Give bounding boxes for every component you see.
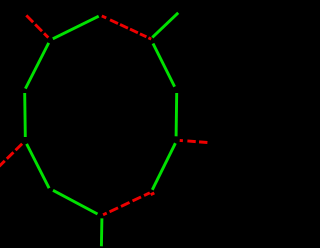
bond C2-C3 (green) <box>153 44 175 87</box>
node C5 (red dash end dot) <box>151 193 155 195</box>
dashed bond C6-C5 (red, bottom) <box>103 192 152 215</box>
bond C7-C6 (green, bottom) <box>53 190 98 214</box>
dashed bond at C4 (red, right) <box>180 140 210 142</box>
bond C10-C9 (green) <box>25 43 48 89</box>
substituent bond on C2 (green stub, up-right) <box>152 13 178 38</box>
dashed bond at C10 (red, up-left) <box>26 15 48 37</box>
bond C9-C8 (green, vertical left) <box>23 93 26 137</box>
dashed bond at C8 (red, down-left) <box>0 142 24 166</box>
bond C8-C7 (green) <box>27 144 49 188</box>
bond C10-C1 (green) <box>53 16 99 39</box>
bond C3-C4 (green, vertical right) <box>175 93 178 136</box>
substituent bond on C6 (green stub, down) <box>100 218 103 246</box>
dashed bond C1-C2 (red, top) <box>102 16 151 39</box>
bond C4-C5 (green) <box>152 143 175 190</box>
